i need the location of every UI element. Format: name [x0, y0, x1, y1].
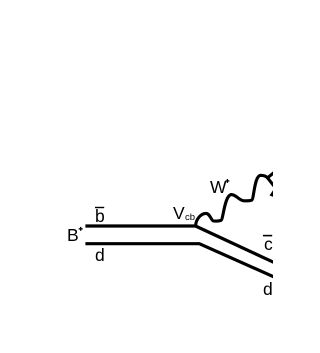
- overbar of b-bar label: [95, 207, 104, 208]
- B+ superscript plus: [79, 227, 83, 231]
- quark line d (B meson lower line): [85, 244, 274, 277]
- arrowhead stub at edge: [270, 190, 275, 197]
- label d (outgoing quark, right): [263, 281, 273, 299]
- W boson wavy propagator: [196, 175, 268, 226]
- quark line b-bar (B meson upper line): [85, 226, 274, 263]
- label b (antiquark): [95, 208, 105, 226]
- W decay lower fermion line (cut at edge): [268, 178, 277, 189]
- label d (lower quark): [95, 247, 105, 265]
- W+ superscript plus: [225, 179, 229, 183]
- overbar of c-bar label: [263, 235, 272, 237]
- label V_cb (CKM vertex): [173, 205, 185, 223]
- label c-bar (outgoing antiquark): [264, 236, 273, 254]
- label W+ (boson): [210, 179, 227, 197]
- W decay upper fermion line (cut at edge): [268, 171, 277, 178]
- label B+ (meson): [67, 227, 79, 245]
